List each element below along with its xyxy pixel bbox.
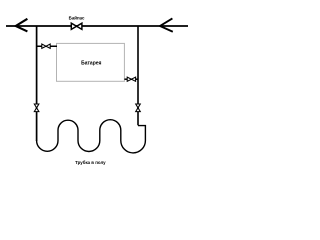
wire: right branch from radiator (124, 78, 138, 80)
valve: right floor-loop valve (vertical) (136, 104, 141, 112)
valve: left floor-loop valve (vertical) (34, 104, 39, 112)
valve: radiator inlet valve (42, 44, 50, 48)
wire: top supply pipe (6, 25, 188, 27)
valve: bypass valve on top pipe (71, 23, 82, 29)
wire: left vertical pipe (36, 26, 38, 141)
radiator box Батарея (57, 43, 125, 81)
svg-text:Трубка в полу: Трубка в полу (75, 160, 106, 165)
wire: right vertical pipe (137, 26, 139, 125)
wire: left branch to radiator (37, 45, 57, 47)
svg-text:Байпас: Байпас (69, 15, 85, 20)
svg-text:Батарея: Батарея (81, 60, 101, 66)
wire: floor heating coil (serpentine) (37, 120, 146, 153)
arrow: flow direction left (left end) (16, 19, 28, 32)
valve: radiator outlet valve (127, 77, 135, 81)
arrow: flow direction left (right end) (160, 18, 173, 31)
